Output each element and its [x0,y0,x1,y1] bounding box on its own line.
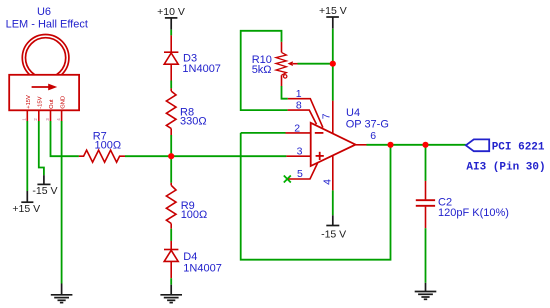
resistor R8 [166,88,176,135]
svg-text:-15V: -15V [38,96,44,108]
hall sensor coil circle U6 [22,35,69,82]
wire +15V down to op-amp pin7 [332,29,334,101]
svg-text:+15 V: +15 V [319,5,347,17]
wire U6 pin2 to -15V [39,121,44,175]
diode D4 [164,241,178,278]
op-amp U4 pin3 lead [286,155,310,157]
wire U6 pin3 (Out) to R7 [51,121,79,156]
op-amp U4 pin1 lead [288,99,323,128]
op-amp U4 pin7 lead [332,101,334,134]
op-amp U4 pin8 lead [288,110,317,124]
R10 feedback loop wire (top left) [241,31,288,110]
op-amp U4 pin4 lead [332,155,334,190]
op-amp U4 pin2 lead [286,132,311,134]
wire C2 to ground [425,228,427,283]
svg-text:U4: U4 [346,107,360,119]
wire R10 wiper to +15V junction [298,63,333,65]
svg-text:+15 V: +15 V [12,203,40,215]
output net wire [367,144,466,146]
feedback wire output to pin2 [241,133,391,260]
svg-text:120pF K(10%): 120pF K(10%) [438,207,509,219]
wire U6 pin4 to ground [61,121,63,284]
main net wire R7 to op-amp pin3 [125,155,286,157]
arrow inside U6 box [32,84,58,91]
wire R9 to D4 [170,229,172,241]
wire R8 to junction [170,135,172,156]
minus sign (inverting input) [315,132,324,134]
U6 pin stubs [27,110,61,121]
ground (left, under U6 pin4) [51,284,73,303]
R10 wiper arrow [288,61,298,66]
svg-text:7: 7 [321,113,333,119]
svg-text:5kΩ: 5kΩ [252,64,272,76]
junction node output/feedback [387,142,393,148]
wire D4 to ground [170,278,172,285]
+15V power symbol (left) [21,191,33,202]
svg-text:OP 37-G: OP 37-G [346,118,389,130]
wire +10V to D3 [170,30,172,36]
svg-text:+10 V: +10 V [157,6,185,18]
svg-text:8: 8 [296,100,302,112]
svg-text:100Ω: 100Ω [95,140,122,152]
junction node at R8/R9 column [168,153,174,159]
capacitor C2 [416,181,435,228]
no-connect X on pin5 [284,176,291,183]
junction node at +15V / R10 wiper [330,61,336,67]
svg-text:6: 6 [370,130,376,142]
-15V power symbol (under op-amp) [326,215,339,225]
svg-text:-15 V: -15 V [321,229,346,241]
wire R10 bottom to op-amp pin1 [282,86,288,99]
connector tag PCI 6221 [466,139,489,151]
wire output junction to C2 [425,145,427,181]
op-amp U4 triangle [311,123,356,166]
svg-text:3: 3 [297,146,303,158]
svg-text:-15 V: -15 V [32,185,57,197]
diode D3 [164,35,178,80]
-15V power symbol (left) [37,175,50,184]
svg-text:1: 1 [296,88,302,100]
svg-text:Out: Out [49,99,55,109]
ground (under C2) [415,283,437,300]
potentiometer R10 [276,42,286,86]
resistor R7 [79,150,125,162]
svg-text:D4: D4 [183,251,197,263]
wire junction to R9 [170,156,172,183]
R10 terminal circle [284,75,287,78]
resistor R9 [166,183,176,229]
svg-text:1N4007: 1N4007 [183,263,222,275]
svg-text:2: 2 [294,122,300,134]
junction node output/C2 [422,142,428,148]
svg-text:1N4007: 1N4007 [182,63,221,75]
wire D3 to R8 [170,81,172,89]
svg-text:LEM - Hall Effect: LEM - Hall Effect [6,19,88,31]
svg-text:AI3 (Pin 30): AI3 (Pin 30) [466,162,545,174]
plus sign (non-inverting input) [316,152,324,160]
svg-text:+15V: +15V [26,95,32,109]
svg-text:GND: GND [60,96,66,109]
LEM box U6 [9,75,79,111]
svg-text:330Ω: 330Ω [180,116,207,128]
wire pin4 to -15V [332,190,334,215]
svg-text:5: 5 [297,168,303,180]
wire op-amp pin2 to feedback [241,132,286,134]
wire U6 pin1 to +15V [26,121,28,191]
svg-text:PCI 6221: PCI 6221 [492,142,545,154]
svg-text:100Ω: 100Ω [181,209,208,221]
svg-text:U6: U6 [37,6,51,18]
svg-text:4: 4 [322,179,334,185]
ground (under D4) [160,285,182,303]
op-amp U4 pin5 lead [289,163,318,179]
op-amp U4 output pin6 lead [356,144,367,146]
